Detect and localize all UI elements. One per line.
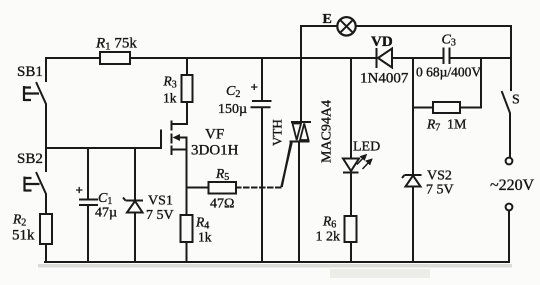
svg-text:47µ: 47µ xyxy=(95,206,117,221)
svg-text:47Ω: 47Ω xyxy=(210,197,234,212)
svg-text:51k: 51k xyxy=(12,228,35,244)
svg-text:+: + xyxy=(76,183,83,198)
svg-text:VF: VF xyxy=(205,127,224,143)
svg-text:7 5V: 7 5V xyxy=(426,183,454,198)
svg-text:SB1: SB1 xyxy=(17,64,43,80)
svg-text:0 68µ/400V: 0 68µ/400V xyxy=(416,65,481,80)
svg-text:R1 75k: R1 75k xyxy=(95,36,137,53)
svg-text:SB2: SB2 xyxy=(17,151,43,167)
svg-text:1 2k: 1 2k xyxy=(316,230,341,245)
svg-text:1M: 1M xyxy=(447,118,467,133)
svg-text:1k: 1k xyxy=(198,230,212,245)
svg-text:VTH: VTH xyxy=(270,119,285,146)
svg-text:1N4007: 1N4007 xyxy=(360,71,409,87)
svg-text:+: + xyxy=(251,80,258,95)
svg-text:VS2: VS2 xyxy=(427,169,452,184)
svg-text:7 5V: 7 5V xyxy=(146,208,174,223)
svg-text:VS1: VS1 xyxy=(148,194,173,209)
svg-text:150µ: 150µ xyxy=(218,102,247,117)
svg-text:MAC94A4: MAC94A4 xyxy=(320,100,335,163)
svg-text:VD: VD xyxy=(371,34,393,50)
svg-text:E: E xyxy=(323,12,332,27)
svg-text:~220V: ~220V xyxy=(490,177,535,194)
svg-text:1k: 1k xyxy=(163,91,177,106)
svg-text:LED: LED xyxy=(353,140,380,155)
svg-text:3DO1H: 3DO1H xyxy=(191,143,239,159)
svg-text:S: S xyxy=(512,93,520,108)
